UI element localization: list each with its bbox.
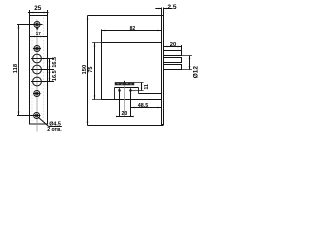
faceplate side view (162, 16, 164, 125)
dimension 25 extension lines (29, 10, 31, 15)
dim 2.5 extensions above plate (161, 8, 163, 16)
cylinder hatch speckles (118, 83, 132, 85)
svg-text:17: 17 (36, 31, 42, 36)
dim 118 arrow bottom (18, 112, 20, 116)
dimension 118 line (18, 25, 20, 116)
hole B inner (36, 47, 39, 50)
dimension 25 line (28, 12, 49, 14)
centerline down from cylinder (124, 85, 126, 117)
dim 82 arrows (102, 30, 106, 32)
vertical centerline of holes (36, 20, 38, 132)
cylinder bar (hatched) (115, 82, 134, 85)
svg-text:16.5: 16.5 (52, 57, 58, 68)
recess floor over cylinder (115, 87, 139, 89)
dim 20 arrows (164, 46, 168, 48)
dim O12 arrows (189, 56, 191, 60)
hole C inner (36, 92, 39, 95)
svg-text:2.5: 2.5 (167, 4, 176, 11)
dim 150 bottom extension (88, 125, 164, 127)
body top edge (102, 42, 162, 44)
cylinder centerline tick (124, 81, 126, 83)
witness arrow left (points up at recess floor) (118, 88, 121, 92)
hole B outer (34, 46, 40, 52)
dim O12 line (189, 56, 191, 70)
svg-text:Ø12: Ø12 (192, 66, 199, 79)
svg-text:75: 75 (88, 67, 94, 73)
body left edge (101, 43, 103, 100)
big hole 1 (33, 54, 42, 63)
bolt 1 (164, 51, 182, 56)
dim 11 arrows (141, 83, 143, 86)
svg-text:118: 118 (13, 63, 19, 73)
dim 82 line (102, 30, 162, 32)
hole A inner (36, 23, 39, 26)
dim 25 arrowheads (30, 12, 34, 14)
svg-text:11: 11 (144, 84, 150, 90)
dim 20 line (164, 46, 182, 48)
internal shelf right (139, 93, 162, 95)
small arrow below hole A (36, 28, 39, 31)
dim 82 extension (body left, up) (101, 30, 103, 43)
hidden body edge dashed right (43, 18, 45, 124)
hole D (bottom ring) crosshair / extension (17, 115, 40, 117)
bolt 3 (164, 65, 182, 70)
hole C (third ring) crosshair (33, 93, 41, 95)
recess step left (114, 88, 116, 100)
cylinder top extension right (134, 82, 144, 84)
hole C outer (34, 91, 40, 97)
datum line arrow left (32, 36, 35, 37)
hole A (top ring) crosshair (17, 24, 43, 26)
dim 118 arrow top (18, 25, 20, 29)
witness stem left (119, 90, 121, 117)
dim 2.5 left tail + arrow (155, 8, 161, 10)
svg-text:82: 82 (130, 26, 136, 32)
dim 2.5 right tail + arrow (164, 8, 173, 10)
hole A outer (34, 22, 40, 28)
dim 20 (bolt) extension (181, 45, 183, 50)
dim 48.5 line (131, 107, 162, 109)
hole B (second ring) crosshair (33, 48, 41, 50)
datum line across plate (30, 36, 48, 38)
hidden body edge dashed left (31, 18, 33, 124)
svg-text:20: 20 (170, 42, 176, 48)
dim 20 bottom arrows (outside) (116, 116, 119, 117)
big hole 2 (33, 65, 42, 74)
leader shelf (49, 126, 62, 128)
bolt 2 (164, 58, 182, 63)
dim 75 arrows (94, 43, 96, 47)
dim 75 line (94, 43, 96, 100)
svg-text:2 отв.: 2 отв. (47, 127, 62, 133)
svg-text:25: 25 (34, 5, 41, 12)
dim 75 top extension (92, 42, 102, 44)
witness stem right (130, 90, 132, 117)
hole D inner (35, 114, 38, 117)
svg-text:16.5: 16.5 (52, 70, 58, 81)
dim 48.5 arrows (131, 107, 135, 109)
hole D outer (34, 113, 40, 119)
body bottom edge (102, 99, 162, 101)
dim 20 bottom line (116, 116, 134, 118)
dim O12 extensions (182, 55, 192, 57)
leader line to bottom hole (38, 117, 48, 126)
11 bottom extension (132, 90, 144, 92)
dimension 16.5 x2 line (49, 59, 51, 82)
recess step right (138, 88, 140, 94)
big hole 3 crosshair / extension right (31, 81, 54, 83)
dim 150 arrows (87, 16, 89, 20)
svg-text:48.5: 48.5 (138, 103, 149, 109)
big hole 2 crosshair / extension right (31, 69, 54, 71)
big hole 1 crosshair / extension right (31, 58, 54, 60)
big hole 3 (33, 77, 42, 86)
dim 150 line (87, 16, 89, 126)
dim 11 line (141, 83, 143, 91)
dim 150 top extension (88, 15, 162, 17)
datum line arrow right (41, 36, 44, 37)
dim arrows 16.5 (49, 59, 51, 63)
faceplate outline (30, 16, 48, 125)
witness arrow right (points up at recess floor) (129, 88, 132, 92)
dim 75 bottom extension (92, 99, 102, 101)
